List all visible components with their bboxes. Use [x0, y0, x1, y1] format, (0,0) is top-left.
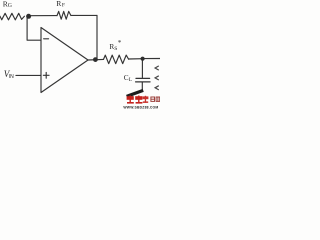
node output junction dot — [93, 57, 98, 62]
svg-text:F: F — [62, 3, 65, 9]
chevron arrow 1 — [155, 66, 159, 70]
op-amp plus input mark — [43, 72, 49, 78]
capacitor CL bottom plate — [136, 81, 150, 83]
wire RF to feedback corner — [71, 14, 97, 16]
resistor RF — [57, 11, 71, 19]
svg-text:WWW.SBDZ88.COM: WWW.SBDZ88.COM — [123, 105, 158, 109]
watermark small characters right — [151, 97, 160, 101]
watermark red character 1 — [127, 96, 134, 104]
svg-text:*: * — [118, 40, 122, 47]
svg-text:L: L — [129, 77, 132, 83]
wire node B down to CL — [141, 60, 143, 78]
wire CL to ground — [141, 83, 143, 92]
label RS* — [109, 40, 122, 52]
label VIN — [4, 69, 14, 80]
op-amp U1 — [41, 28, 88, 93]
chevron arrow 2 — [155, 76, 159, 80]
chevron arrow 3 — [155, 86, 159, 90]
wire VIN to non-inverting input — [16, 74, 41, 76]
op-amp minus input mark — [44, 38, 49, 40]
wire feedback vertical — [95, 15, 97, 59]
svg-text:IN: IN — [9, 74, 14, 80]
ground symbol — [127, 90, 144, 98]
resistor RS — [104, 55, 129, 64]
label RG — [3, 0, 12, 9]
label RF — [56, 0, 65, 9]
capacitor CL top plate — [136, 77, 150, 79]
watermark red character 2 — [135, 96, 142, 104]
wire RS to output node B — [129, 58, 143, 60]
wire node A down to inverting input — [27, 17, 41, 40]
node A junction dot — [26, 14, 31, 19]
label CL — [124, 73, 132, 83]
watermark red character 3 — [143, 96, 149, 103]
svg-text:G: G — [8, 3, 12, 9]
node B junction dot — [141, 57, 145, 61]
wire node B to right edge — [143, 58, 161, 60]
svg-text:S: S — [114, 46, 117, 52]
wire output to RS — [88, 58, 104, 61]
resistor RG — [0, 13, 24, 20]
wire node A to RF — [29, 15, 58, 17]
